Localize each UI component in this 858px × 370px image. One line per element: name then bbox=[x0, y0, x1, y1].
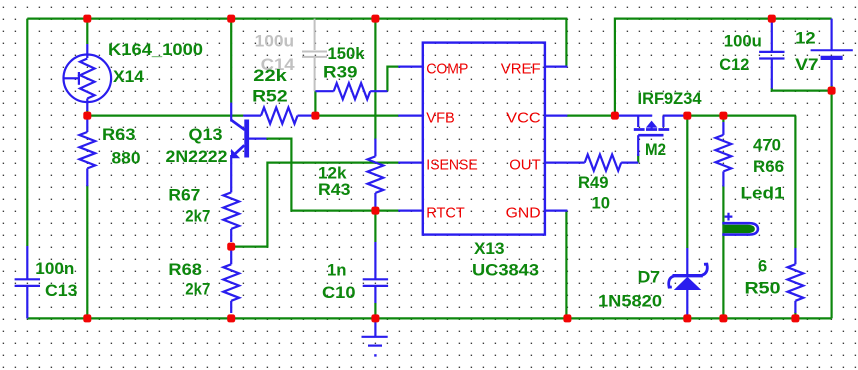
svg-text:COMP: COMP bbox=[426, 61, 468, 78]
svg-text:12k: 12k bbox=[318, 165, 347, 183]
svg-text:100u: 100u bbox=[255, 33, 295, 51]
wire X14 top drop bbox=[86, 19, 88, 44]
node rail-GND bbox=[563, 314, 571, 322]
resistor R67 bbox=[223, 192, 239, 242]
wire Q13 collector drop bbox=[230, 19, 232, 103]
node VCC-M2 bbox=[611, 112, 619, 120]
svg-text:RTCT: RTCT bbox=[426, 204, 465, 221]
pin ISENSE stub bbox=[398, 162, 423, 164]
wire left border down to C13 bbox=[26, 19, 28, 246]
svg-text:X14: X14 bbox=[113, 68, 145, 86]
wire top rail to R43 bbox=[374, 19, 376, 140]
svg-text:1n: 1n bbox=[327, 262, 347, 280]
battery V7 bbox=[811, 19, 853, 86]
svg-text:C13: C13 bbox=[45, 282, 78, 300]
LED Led1 indicator bbox=[722, 213, 758, 235]
pin VREF stub bbox=[545, 65, 568, 67]
svg-text:V7: V7 bbox=[795, 56, 819, 74]
ground bbox=[362, 318, 388, 356]
svg-text:X13: X13 bbox=[474, 240, 505, 258]
pin VCC stub bbox=[545, 114, 568, 116]
svg-text:12: 12 bbox=[795, 30, 816, 48]
wire C10 bottom to rail bbox=[374, 303, 376, 318]
wire VFB node up to R39 bbox=[314, 91, 316, 115]
svg-text:R39: R39 bbox=[323, 63, 358, 81]
wire RTCT node down to C10 bbox=[374, 211, 376, 242]
resistor R68 bbox=[223, 247, 239, 313]
wire drain down to D7 bbox=[686, 116, 688, 248]
pin GND stub bbox=[545, 210, 568, 212]
svg-text:Q13: Q13 bbox=[189, 126, 223, 144]
node rail-R68 bbox=[227, 314, 235, 322]
resistor R66 bbox=[716, 122, 732, 187]
transistor Q13 bbox=[231, 103, 267, 193]
svg-text:R49: R49 bbox=[578, 174, 609, 192]
svg-text:R43: R43 bbox=[318, 181, 351, 199]
svg-text:2k7: 2k7 bbox=[185, 280, 210, 298]
node R67-R68 bbox=[227, 243, 235, 251]
photoresistor X14 bbox=[64, 44, 112, 111]
svg-text:C10: C10 bbox=[322, 284, 356, 302]
wire VFB node to IC bbox=[315, 114, 399, 116]
svg-text:C12: C12 bbox=[719, 56, 749, 74]
node VFB-left bbox=[83, 112, 91, 120]
svg-text:100n: 100n bbox=[35, 260, 74, 278]
svg-text:R50: R50 bbox=[745, 280, 781, 298]
svg-text:2N2222: 2N2222 bbox=[166, 148, 228, 166]
wire Q13 base to RTCT bbox=[266, 139, 399, 211]
pin OUT stub bbox=[545, 162, 568, 164]
capacitor C12 bbox=[759, 20, 784, 89]
wire gate riser bbox=[637, 154, 639, 163]
svg-text:R63: R63 bbox=[102, 126, 136, 144]
svg-text:470: 470 bbox=[753, 137, 781, 155]
svg-text:OUT: OUT bbox=[509, 157, 541, 174]
wire R50 branch drop bbox=[794, 116, 796, 248]
node M2-D7 bbox=[683, 112, 691, 120]
wire X14 bottom to node bbox=[86, 110, 88, 118]
svg-text:R52: R52 bbox=[252, 87, 288, 105]
node top-C12 bbox=[768, 15, 776, 23]
svg-text:880: 880 bbox=[112, 149, 141, 167]
svg-text:22k: 22k bbox=[253, 67, 287, 85]
wire R66 bottom through Led1 to rail bbox=[722, 185, 724, 318]
capacitor C10 bbox=[363, 242, 388, 303]
node rail-R63 bbox=[83, 314, 91, 322]
diode D7 schottky bbox=[669, 248, 708, 318]
svg-text:150k: 150k bbox=[328, 45, 366, 63]
svg-text:VREF: VREF bbox=[501, 61, 541, 78]
wire GND pin down to rail bbox=[565, 211, 567, 319]
svg-text:10: 10 bbox=[592, 195, 611, 213]
transistor M2 MOSFET IRF9Z34 bbox=[617, 116, 686, 156]
node rail-C10 bbox=[371, 314, 379, 322]
capacitor C14 (ghost) bbox=[302, 19, 327, 92]
svg-text:6: 6 bbox=[758, 258, 767, 276]
wire bottom ground rail bbox=[27, 317, 831, 319]
resistor R43 bbox=[368, 139, 384, 211]
svg-text:VCC: VCC bbox=[506, 110, 541, 127]
wire VREF pin up to top rail bbox=[565, 19, 567, 67]
node rail-R50 bbox=[791, 314, 799, 322]
wire VFB row left segment bbox=[87, 114, 243, 116]
svg-text:D7: D7 bbox=[638, 269, 661, 287]
wire R67 node to ISENSE bbox=[230, 163, 399, 247]
svg-text:R67: R67 bbox=[168, 187, 200, 205]
svg-text:2k7: 2k7 bbox=[185, 207, 210, 225]
wire R39 right up to COMP bbox=[387, 67, 399, 92]
svg-text:VFB: VFB bbox=[426, 110, 455, 127]
wire R66 branch top bbox=[722, 116, 724, 122]
resistor R52 bbox=[243, 108, 313, 124]
pin VFB stub bbox=[398, 114, 423, 116]
svg-text:UC3843: UC3843 bbox=[472, 262, 539, 280]
node top-Q13 bbox=[227, 15, 235, 23]
pin COMP stub bbox=[398, 65, 423, 67]
resistor R63 bbox=[79, 114, 95, 186]
svg-text:K164_1000: K164_1000 bbox=[108, 41, 203, 59]
svg-text:ISENSE: ISENSE bbox=[426, 157, 478, 174]
svg-text:1N5820: 1N5820 bbox=[598, 293, 662, 311]
node battery-minus bbox=[828, 87, 836, 95]
svg-text:Led1: Led1 bbox=[741, 185, 785, 203]
node M2-R66 bbox=[719, 112, 727, 120]
capacitor C13 bbox=[15, 246, 40, 318]
resistor R49 bbox=[567, 155, 638, 171]
wire VCC pin to MOSFET node bbox=[566, 114, 616, 116]
wire right border battery to rail bbox=[830, 85, 832, 318]
pin RTCT stub bbox=[398, 210, 423, 212]
node top-X14 bbox=[83, 15, 91, 23]
node top-R43 bbox=[371, 15, 379, 23]
node VFB-R52 bbox=[311, 112, 319, 120]
wire drain row bbox=[687, 114, 795, 116]
svg-text:R68: R68 bbox=[168, 261, 202, 279]
wire top-left rail bbox=[27, 18, 567, 20]
svg-text:M2: M2 bbox=[645, 141, 666, 159]
node RTCT-R43 bbox=[371, 207, 379, 215]
svg-text:R66: R66 bbox=[753, 158, 784, 176]
wire R50 bottom to rail bbox=[794, 312, 796, 318]
svg-text:100u: 100u bbox=[724, 33, 762, 51]
wire C12 bottom jog to battery minus bbox=[772, 88, 832, 91]
wire top-right rail bbox=[615, 19, 832, 116]
resistor R39 bbox=[315, 83, 387, 99]
node rail-D7 bbox=[683, 314, 691, 322]
IC X13 UC3843 box bbox=[423, 43, 545, 235]
node rail-Led1 bbox=[719, 314, 727, 322]
svg-text:IRF9Z34: IRF9Z34 bbox=[638, 90, 703, 108]
resistor R50 bbox=[788, 248, 804, 313]
wire R63 bottom to rail bbox=[86, 185, 88, 318]
svg-text:GND: GND bbox=[506, 204, 541, 221]
